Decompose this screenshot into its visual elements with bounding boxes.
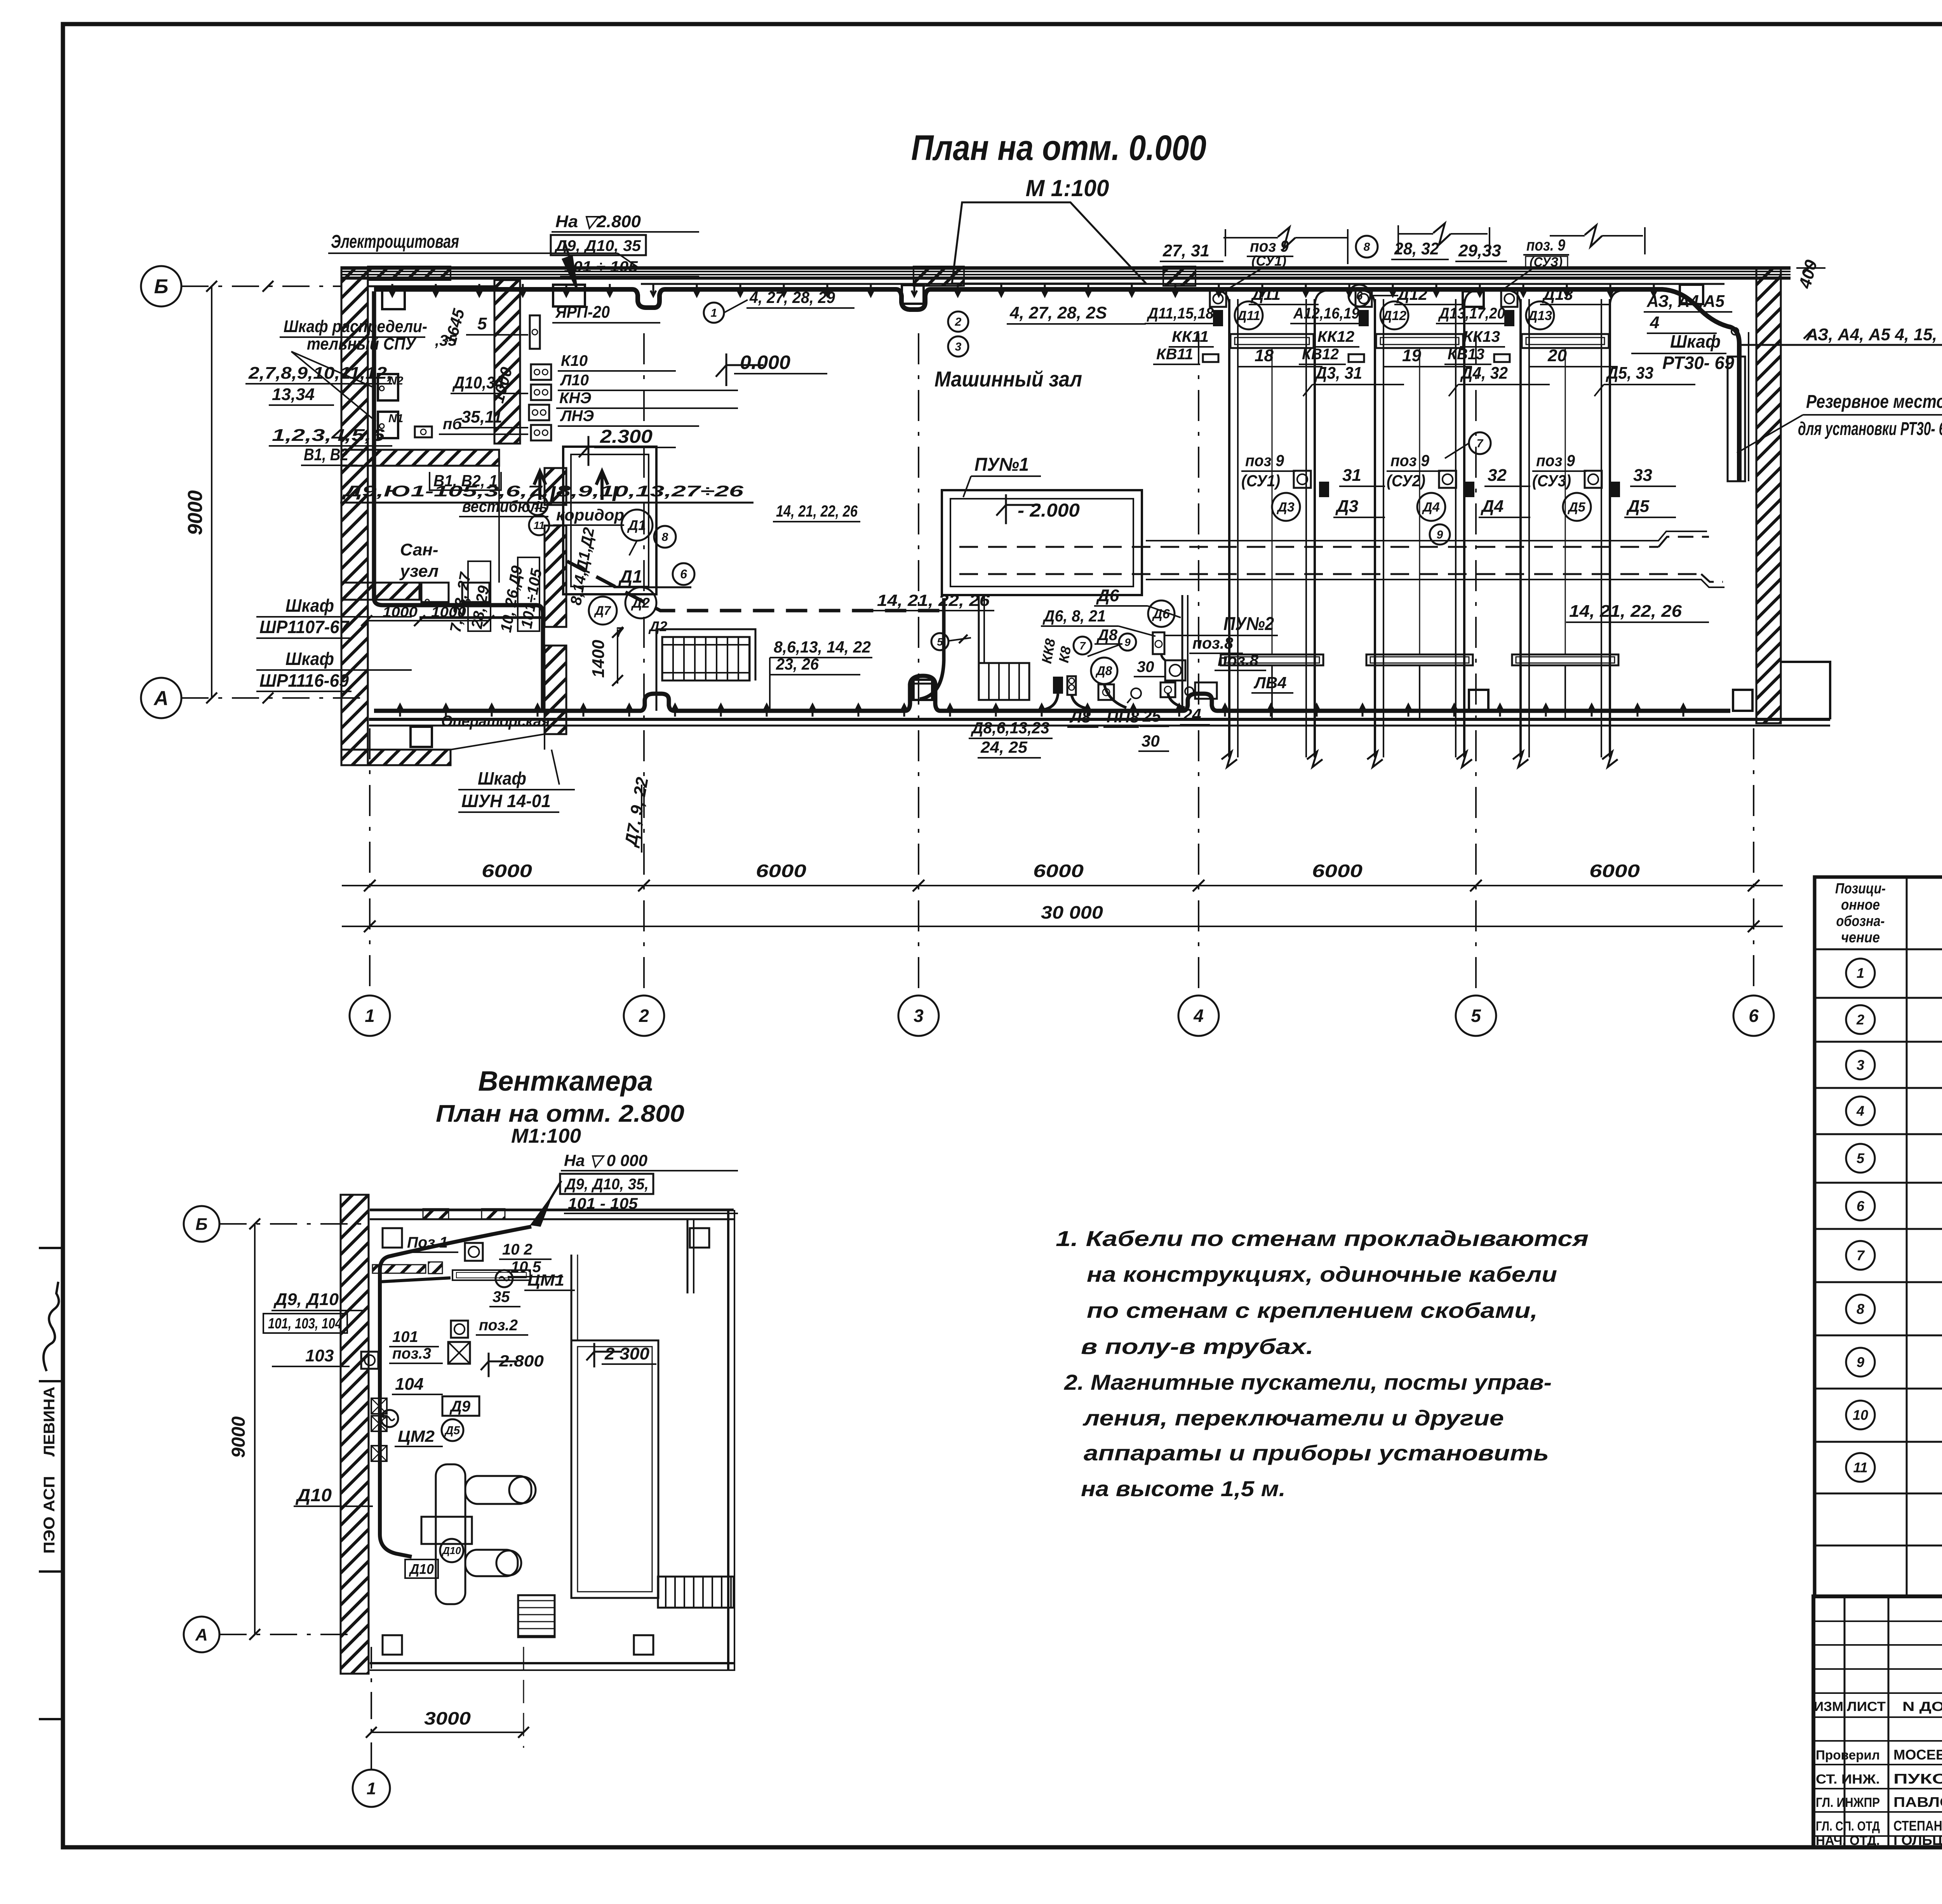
svg-text:8: 8	[662, 531, 668, 544]
interior wall electroshield right hatched	[494, 280, 520, 444]
svg-text:ШР1116-69: ШР1116-69	[259, 670, 349, 691]
svg-text:28, 32: 28, 32	[1394, 239, 1439, 258]
circled q pu2	[1074, 637, 1091, 654]
vent top wall hatch piers	[423, 1209, 505, 1220]
device L10	[531, 385, 551, 400]
svg-text:Венткамера: Венткамера	[478, 1066, 653, 1097]
vent vertical dim 9000	[228, 1224, 255, 1634]
vent grid circle 1	[353, 1647, 390, 1807]
svg-text:Шкаф: Шкаф	[1670, 331, 1721, 352]
window glazing lines in top wall	[341, 272, 1791, 275]
rotated label 101-105 boxed	[518, 557, 545, 631]
svg-text:Машинный зал: Машинный зал	[934, 367, 1082, 391]
bay Д12 label list А12,16,19	[1290, 305, 1360, 324]
label PU N1	[963, 454, 1041, 497]
device LNE	[531, 425, 551, 440]
channel right jog dashed	[1658, 537, 1723, 582]
svg-text:ЛВ4: ЛВ4	[1253, 674, 1287, 692]
bay Д12 mid wedge	[1464, 482, 1474, 497]
circled 8 small	[654, 526, 676, 548]
svg-text:Операторская: Операторская	[441, 713, 550, 730]
svg-text:К8: К8	[1056, 645, 1074, 664]
svg-text:аппараты и приборы установи: аппараты и приборы установить	[1084, 1441, 1549, 1465]
svg-text:(СУ2): (СУ2)	[1387, 472, 1425, 490]
svg-text:Б: Б	[154, 275, 169, 298]
pit room right wall	[1182, 595, 1188, 709]
svg-text:14, 21, 22, 26: 14, 21, 22, 26	[1569, 602, 1682, 621]
title block izm list row	[1814, 1699, 1942, 1714]
label 30 pu2	[1134, 658, 1165, 677]
bay Д13 label КВ13	[1444, 346, 1491, 364]
dimension line 30000 row	[342, 902, 1783, 932]
bay Д13 mid sq device	[1585, 471, 1602, 488]
left margin vertical text	[39, 1248, 63, 1719]
svg-text:3000: 3000	[424, 1708, 471, 1728]
label 29 33 top	[1455, 241, 1507, 261]
svg-text:Д8,6,13,23: Д8,6,13,23	[971, 719, 1049, 737]
label 8 6 13 14 22 23 26	[770, 638, 872, 710]
svg-text:ГЛ. ИНЖПР: ГЛ. ИНЖПР	[1816, 1795, 1880, 1810]
bay Д13 circled Д5	[1563, 493, 1591, 521]
circled 9 pu2	[1088, 634, 1136, 656]
svg-text:104: 104	[395, 1375, 423, 1394]
svg-text:6000: 6000	[1589, 861, 1640, 881]
label 4 27 28 29 first	[747, 288, 854, 308]
callout Na 2.800 / D9 D10 35 / 101-105	[551, 212, 699, 287]
svg-text:А12,16,19: А12,16,19	[1293, 305, 1360, 322]
label D2 small	[648, 618, 667, 634]
svg-text:(СУ3): (СУ3)	[1532, 472, 1571, 490]
pit room minus 2.000	[942, 490, 1142, 595]
svg-text:Д13: Д13	[1527, 308, 1552, 323]
vent elevation 2.800	[481, 1352, 544, 1377]
dim 1000 1000	[361, 604, 494, 626]
device 5 vertical	[530, 315, 540, 349]
svg-text:А: А	[195, 1625, 208, 1644]
label 1 2 3 4 5 6	[269, 426, 392, 446]
svg-text:обозна-: обозна-	[1836, 913, 1885, 929]
svg-text:СТЕПАНЕНКО: СТЕПАНЕНКО	[1893, 1818, 1942, 1834]
svg-text:2 300: 2 300	[604, 1344, 650, 1363]
svg-text:Б: Б	[195, 1215, 207, 1234]
svg-text:Л10: Л10	[560, 372, 589, 389]
svg-text:КВ11: КВ11	[1156, 346, 1193, 363]
label 14 21 22 26 upper	[773, 502, 860, 522]
svg-text:25: 25	[1142, 707, 1161, 725]
svg-text:(СУ1): (СУ1)	[1241, 472, 1280, 490]
svg-text:Д4, 32: Д4, 32	[1460, 364, 1508, 383]
label D6 circled	[1148, 600, 1175, 627]
svg-text:ЛЕВИНА: ЛЕВИНА	[41, 1387, 58, 1457]
vent label D10 left	[294, 1485, 373, 1506]
top exterior wall line outer	[341, 266, 1791, 270]
labels under bottom wall pu2	[969, 705, 1210, 758]
svg-text:8: 8	[1857, 1301, 1864, 1317]
svg-text:М1:100: М1:100	[511, 1125, 581, 1147]
pu2 cable hooks	[1041, 654, 1185, 710]
svg-text:узел: узел	[399, 562, 439, 581]
label LNE	[558, 407, 699, 426]
svg-text:5: 5	[1857, 1150, 1865, 1166]
svg-text:5: 5	[1471, 1006, 1481, 1026]
svg-text:Д9, Д10, 35,: Д9, Д10, 35,	[564, 1176, 649, 1193]
label A3 A4 A5 4 15 16 17	[1731, 325, 1942, 345]
circled 8 top	[1356, 236, 1378, 258]
label reserve place	[1737, 392, 1942, 453]
bay Д11 kv device	[1203, 354, 1218, 362]
grid circle 4	[1178, 996, 1219, 1036]
svg-text:вестибюль: вестибюль	[462, 497, 548, 515]
sanuzel bottom wall hatched	[341, 583, 419, 600]
svg-text:Д11: Д11	[1251, 285, 1281, 303]
vent label CM2	[395, 1427, 443, 1446]
device box left of pit	[913, 684, 935, 700]
label D6 8 21	[1041, 607, 1155, 636]
label 14 21 22 26 mid	[861, 591, 994, 611]
vent fan CM2	[381, 1410, 398, 1427]
svg-text:7: 7	[1477, 437, 1484, 450]
svg-text:35,11: 35,11	[461, 407, 502, 426]
bay Д12 wedge device	[1359, 310, 1369, 326]
room label corridor	[553, 506, 624, 525]
svg-text:1,2,3,4,5,6: 1,2,3,4,5,6	[272, 426, 385, 445]
bay Д12 poz9 su mid	[1387, 451, 1441, 490]
room label sanuzel	[399, 540, 439, 581]
vent label 105	[508, 1258, 563, 1277]
main cable run along top wall	[374, 289, 1739, 482]
label LV4	[1251, 674, 1293, 693]
svg-text:Д3, 31: Д3, 31	[1314, 364, 1362, 383]
svg-text:10 2: 10 2	[502, 1241, 532, 1258]
bay Д12 mid num 32	[1484, 466, 1530, 486]
svg-text:30: 30	[1137, 658, 1154, 675]
dimension labels 6000	[482, 861, 1640, 881]
vent D9 box	[442, 1396, 479, 1416]
bay Д12 shelf number 19	[1383, 346, 1472, 367]
room label operator	[441, 713, 550, 730]
svg-text:Д1: Д1	[627, 517, 646, 533]
vent duct shaft walls	[571, 1255, 658, 1598]
svg-text:4: 4	[1650, 313, 1659, 332]
svg-text:В1, В2: В1, В2	[304, 445, 348, 464]
bay Д12 label КК12	[1314, 328, 1359, 347]
long cable list label D9 101-105	[340, 483, 753, 503]
rotated dim 400	[1795, 258, 1825, 339]
svg-text:Д3: Д3	[1335, 497, 1358, 516]
vent top wall	[370, 1210, 734, 1219]
window box 3	[1463, 291, 1484, 307]
bay Д11 upper shelf	[1230, 334, 1314, 348]
bay Д11 grating	[1221, 654, 1323, 665]
rotated label 10 26 D9	[498, 564, 526, 634]
stairs main plan	[662, 637, 750, 680]
channel solid edge upper	[1146, 531, 1707, 541]
svg-text:9000: 9000	[184, 490, 207, 535]
vent grid circle B	[184, 1206, 370, 1242]
bay Д13 channel walls	[1508, 291, 1622, 757]
pu2 dev box1	[1067, 676, 1076, 695]
bay Д11 label КВ11	[1153, 346, 1200, 364]
circled 7 mid	[1445, 432, 1491, 458]
svg-text:Д2: Д2	[648, 618, 667, 634]
svg-text:35: 35	[492, 1288, 510, 1305]
break squiggle dim top2	[1398, 223, 1488, 245]
notes paragraph	[1056, 1226, 1589, 1501]
vent heavy cable run	[380, 1227, 531, 1557]
svg-text:Д11,15,18: Д11,15,18	[1147, 305, 1214, 322]
svg-text:29,33: 29,33	[1458, 241, 1501, 260]
svg-text:поз.3: поз.3	[392, 1345, 431, 1362]
svg-text:N ДОКУМ: N ДОКУМ	[1902, 1699, 1942, 1714]
svg-text:ления, переключатели и други: ления, переключатели и другие	[1082, 1406, 1504, 1430]
label 35 11	[458, 407, 528, 428]
bay Д11 shelf number 18	[1237, 346, 1323, 367]
vent left wall hatched	[341, 1195, 369, 1674]
svg-text:2. Магнитные пускатели, посты: 2. Магнитные пускатели, посты управ-	[1064, 1370, 1552, 1394]
svg-text:1. Кабели по стенам прокладыв: 1. Кабели по стенам прокладываются	[1056, 1226, 1589, 1251]
label shkaf ShR1107-67	[256, 595, 412, 638]
vent dim 3000	[366, 1647, 529, 1748]
svg-text:поз. 9: поз. 9	[1526, 236, 1566, 254]
channel dashed line lower	[959, 573, 1701, 575]
vent D10 circle	[440, 1539, 463, 1562]
svg-text:ЛИСТ: ЛИСТ	[1847, 1699, 1886, 1714]
svg-text:6000: 6000	[1312, 861, 1363, 881]
cable tray along top wall	[641, 283, 1724, 285]
hatched pier mid near trapezoid right	[1163, 266, 1195, 286]
svg-text:Д9, Д10: Д9, Д10	[273, 1290, 339, 1309]
vent duct horizontal	[465, 1476, 536, 1504]
svg-text:в полу-в трубах.: в полу-в трубах.	[1081, 1334, 1314, 1359]
circled 2 plan	[948, 312, 968, 332]
svg-text:(СУ1): (СУ1)	[1251, 253, 1286, 269]
bay Д13 mid wedge	[1610, 482, 1620, 497]
svg-text:по стенам с креплением скобам: по стенам с креплением скобами,	[1087, 1298, 1538, 1323]
svg-text:1: 1	[367, 1779, 376, 1798]
bay Д13 grating	[1512, 654, 1618, 665]
svg-text:5: 5	[477, 314, 487, 333]
bay Д12 grating	[1366, 654, 1473, 665]
svg-text:ПУ№2: ПУ№2	[1223, 614, 1274, 634]
svg-text:КВ12: КВ12	[1302, 346, 1339, 363]
circled 1 small	[527, 495, 548, 515]
svg-text:13,34: 13,34	[272, 385, 315, 404]
bay Д12 mid sq device	[1439, 471, 1456, 488]
svg-text:МОСЕЕНКО: МОСЕЕНКО	[1893, 1747, 1942, 1763]
svg-text:11: 11	[533, 519, 545, 531]
svg-text:7: 7	[616, 624, 624, 640]
rotated dim 1000	[489, 365, 516, 405]
svg-text:Д4: Д4	[1480, 497, 1503, 516]
pu2 small circle dev	[1127, 688, 1141, 703]
bay Д12 drop line to wall	[1419, 665, 1420, 719]
vent D10 box label	[405, 1559, 438, 1578]
bay Д12 circled Д4	[1417, 493, 1445, 521]
operator room box	[411, 727, 432, 747]
stairwell room 2.300	[563, 447, 656, 594]
annex partition thin lines	[368, 466, 545, 750]
tray line inside electroshield	[368, 285, 494, 287]
svg-text:7: 7	[1857, 1248, 1865, 1264]
pu2 wedge device	[1053, 677, 1063, 694]
svg-text:2: 2	[955, 316, 962, 329]
svg-text:для установки РТ30- 69: для установки РТ30- 69	[1798, 419, 1942, 439]
svg-text:ГЛ. СП. ОТД: ГЛ. СП. ОТД	[1816, 1819, 1880, 1834]
bay Д11 wedge device	[1213, 310, 1223, 326]
label ShRP-20	[552, 303, 660, 323]
svg-text:ГОЛЬЦМАН: ГОЛЬЦМАН	[1893, 1832, 1942, 1848]
svg-text:Д13: Д13	[1542, 285, 1573, 303]
svg-text:поз.2: поз.2	[479, 1317, 518, 1334]
vent callout D9 D10 boxed	[263, 1290, 365, 1333]
bay Д12 label КВ12	[1299, 346, 1346, 364]
svg-text:коридор: коридор	[556, 506, 624, 524]
hatched pier mid near trapezoid left	[914, 266, 964, 286]
svg-text:(СУЗ): (СУЗ)	[1530, 255, 1563, 270]
elevation flag 2.300	[579, 426, 676, 466]
cable drop ticks on top run	[390, 284, 1657, 296]
vent label poz2	[476, 1317, 528, 1335]
svg-text:101, 103, 104: 101, 103, 104	[268, 1316, 342, 1332]
rotated label 7 23 27	[447, 571, 475, 634]
svg-text:24: 24	[1183, 705, 1201, 724]
sanuzel top wall hatched	[341, 450, 499, 466]
svg-text:поз 9: поз 9	[1250, 237, 1289, 255]
cable run left annex	[374, 291, 543, 711]
bay Д11 mid sq device	[1294, 471, 1311, 488]
label 2 7 8 9 10 11 12 13 34	[245, 364, 392, 405]
svg-text:27, 31: 27, 31	[1162, 241, 1209, 260]
label D1 text	[614, 566, 691, 587]
svg-text:Шкаф: Шкаф	[285, 595, 334, 616]
svg-text:На ▽ 0 000: На ▽ 0 000	[564, 1151, 647, 1170]
bay Д12 kv device	[1349, 354, 1364, 362]
title block signature rows	[1816, 1747, 1942, 1848]
svg-text:7: 7	[1079, 640, 1086, 652]
label 14 21 22 26 right	[1566, 602, 1709, 622]
break squiggle dim top1	[1223, 227, 1348, 249]
svg-text:К10: К10	[561, 352, 588, 369]
svg-text:Д5, 33: Д5, 33	[1605, 364, 1653, 383]
vent right wall	[728, 1210, 734, 1671]
svg-text:Д8: Д8	[1095, 664, 1112, 678]
top exterior wall line inner	[341, 277, 1791, 280]
svg-text:Д8: Д8	[1096, 627, 1118, 644]
svg-text:АЗ, А4,А5: АЗ, А4,А5	[1646, 292, 1724, 311]
svg-text:Д5: Д5	[1626, 497, 1650, 516]
bottom wall door posts	[914, 680, 1752, 711]
grid circle 3	[898, 996, 939, 1036]
title block outer box	[1813, 1596, 1942, 1847]
svg-text:11: 11	[1853, 1460, 1867, 1476]
label poz9 SU1 top	[1227, 237, 1293, 289]
svg-text:поз 9: поз 9	[1390, 451, 1430, 470]
label 27 31	[1160, 241, 1223, 261]
svg-text:Л8: Л8	[1069, 708, 1091, 726]
window box 5	[1680, 285, 1703, 304]
svg-text:ШУН 14-01: ШУН 14-01	[461, 791, 551, 811]
circled D1	[621, 510, 653, 555]
svg-text:Шкаф: Шкаф	[478, 768, 526, 788]
bay Д12 sq device top	[1356, 291, 1372, 307]
svg-text:Шкаф распредели-: Шкаф распредели-	[284, 317, 427, 336]
svg-text:ПЭО АСП: ПЭО АСП	[41, 1476, 58, 1554]
corridor wall segment 1 hatched	[545, 468, 566, 505]
svg-text:2.800: 2.800	[499, 1352, 544, 1370]
section mark I left	[534, 471, 556, 506]
rotated dim 1645	[441, 306, 468, 346]
rotated dim 1400	[589, 627, 623, 686]
svg-text:ПУ№1: ПУ№1	[974, 454, 1029, 475]
svg-text:План на отм. 0.000: План на отм. 0.000	[911, 128, 1206, 168]
svg-text:Д5: Д5	[444, 1424, 461, 1437]
svg-text:ПУКОВА: ПУКОВА	[1893, 1771, 1942, 1787]
svg-text:Д9: Д9	[449, 1398, 471, 1415]
label D6 text	[1094, 586, 1181, 618]
room label vestibule	[459, 497, 548, 517]
svg-text:Д4: Д4	[1422, 500, 1440, 515]
vent unit box D10	[421, 1517, 472, 1544]
label poz9 SU3 top	[1503, 236, 1569, 289]
svg-text:103: 103	[305, 1346, 334, 1365]
svg-text:4, 27, 28, 29: 4, 27, 28, 29	[749, 288, 835, 306]
label 4 27 28 29 second	[1007, 303, 1146, 324]
svg-text:на высоте 1,5 м.: на высоте 1,5 м.	[1081, 1476, 1286, 1501]
label PU N2	[1165, 614, 1278, 635]
bay Д12 channel walls	[1363, 291, 1477, 757]
grid circle 2	[624, 996, 664, 1036]
svg-text:20: 20	[1547, 346, 1567, 365]
svg-text:пб: пб	[443, 416, 462, 433]
pu2 button box	[1153, 632, 1164, 654]
vent poz2 box	[451, 1321, 468, 1338]
hatched pier top-left electroshield room	[368, 266, 451, 280]
title block grid lines	[1813, 1596, 1942, 1847]
vent small stairs	[518, 1595, 555, 1637]
window box 1	[553, 285, 585, 306]
vent D5 circle	[442, 1419, 463, 1441]
svg-text:НАЧ. ОТД.: НАЧ. ОТД.	[1816, 1833, 1880, 1848]
pu2 sq device	[1165, 660, 1185, 680]
svg-text:4: 4	[1856, 1103, 1864, 1119]
svg-text:КК12: КК12	[1317, 328, 1354, 345]
label shkaf raspredelitelny SPU	[280, 317, 457, 421]
channel solid edge lower	[1146, 580, 1724, 587]
grid circle 1	[350, 996, 390, 1036]
svg-text:N1: N1	[388, 412, 403, 425]
svg-text:СТ. ИНЖ.: СТ. ИНЖ.	[1816, 1772, 1880, 1787]
bay Д11 label КК11	[1169, 328, 1214, 347]
svg-text:ИЗМ: ИЗМ	[1814, 1699, 1843, 1714]
svg-text:2,7,8,9,10,11,12,: 2,7,8,9,10,11,12,	[248, 364, 392, 383]
grid circle B (row)	[141, 266, 342, 306]
circled 9 bay2	[1430, 524, 1450, 545]
svg-text:- 2.000: - 2.000	[1018, 500, 1080, 521]
bay Д13 mid label2	[1624, 497, 1676, 517]
svg-text:Д7: Д7	[594, 604, 612, 618]
bay Д11 break marks	[1222, 752, 1323, 767]
circled D7	[589, 597, 617, 625]
rotated label 8 14 D1 D2	[567, 526, 598, 607]
svg-text:Д10: Д10	[442, 1545, 461, 1556]
svg-text:14, 21, 22, 26: 14, 21, 22, 26	[877, 591, 990, 609]
operator room bottom wall hatched	[341, 750, 451, 765]
svg-text:8: 8	[1364, 241, 1370, 254]
circled D8	[1091, 658, 1117, 684]
cabinet N2	[378, 374, 404, 400]
svg-text:1: 1	[711, 307, 717, 320]
device box top in electroshield	[382, 287, 405, 309]
